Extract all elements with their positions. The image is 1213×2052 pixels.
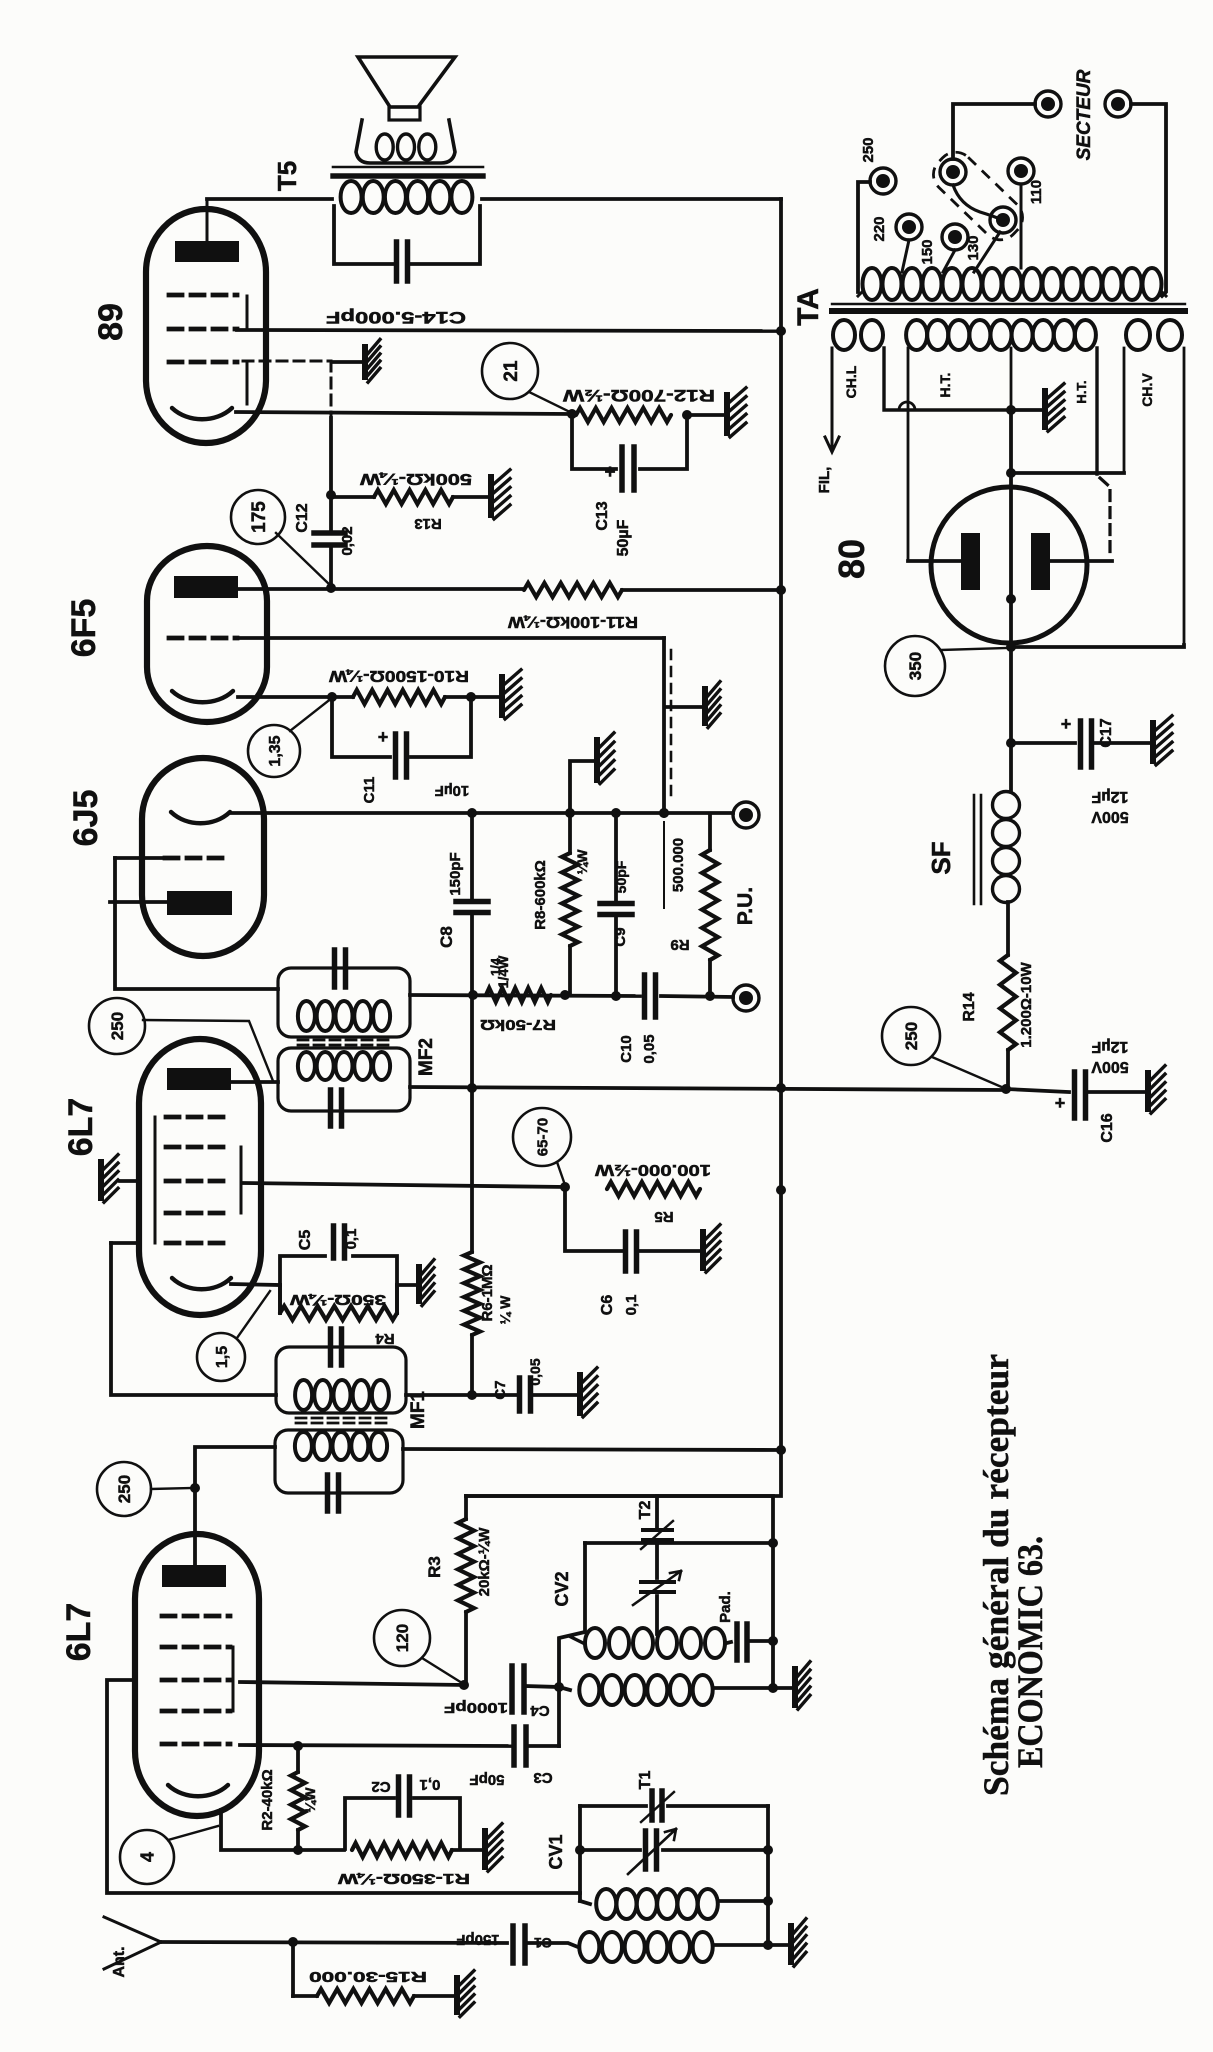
ground <box>362 339 380 382</box>
svg-text:T5: T5 <box>272 161 302 191</box>
switch dashed outline <box>926 145 1030 247</box>
resistor R8 label <box>495 849 590 989</box>
MF2 upper box <box>278 968 410 1037</box>
wire C6 branch <box>565 1187 700 1251</box>
svg-text:T2: T2 <box>637 1501 654 1520</box>
TA primary coil <box>858 268 1166 300</box>
svg-text:250: 250 <box>902 1022 921 1050</box>
tube 6J5 anode arc <box>171 812 230 823</box>
svg-text:C13: C13 <box>594 501 611 530</box>
svg-text:0,1: 0,1 <box>623 1295 640 1316</box>
wire 6J5 anode long <box>230 811 733 815</box>
MF1 upper coil <box>295 1380 389 1410</box>
svg-text:20kΩ-¼W: 20kΩ-¼W <box>476 1527 493 1597</box>
antenna coil <box>579 1932 788 1962</box>
resistor R9 labels <box>664 822 690 953</box>
svg-text:FIL,: FIL, <box>816 467 833 494</box>
wire MF2 to R14 junction <box>410 1087 1004 1090</box>
wire R10 to ground <box>445 692 499 702</box>
svg-text:150: 150 <box>919 239 936 264</box>
svg-text:C5: C5 <box>297 1230 314 1251</box>
tube 6L7-1 anode <box>162 1565 226 1587</box>
terminal 250 <box>860 137 896 194</box>
svg-text:350: 350 <box>906 652 925 680</box>
svg-text:350Ω-¼W: 350Ω-¼W <box>289 1291 386 1308</box>
svg-text:50pF: 50pF <box>613 860 629 893</box>
ground branch <box>570 761 594 813</box>
svg-text:C11: C11 <box>361 777 378 804</box>
svg-text:0,02: 0,02 <box>339 526 356 555</box>
svg-text:CV2: CV2 <box>552 1571 572 1606</box>
trimmer T1 <box>637 1771 674 1822</box>
wire chv right to filament <box>1011 645 1184 647</box>
wire antenna <box>161 1937 507 1947</box>
MF2 core <box>298 1040 390 1045</box>
svg-text:+: + <box>378 727 389 747</box>
wire C17 ground <box>1092 741 1150 745</box>
wire HT right to plate <box>1050 559 1112 563</box>
tube 6J5 grid row <box>165 856 228 861</box>
wire 6F5 cathode <box>238 692 353 702</box>
TA core <box>832 304 1185 311</box>
svg-text:0,1: 0,1 <box>343 1229 360 1250</box>
wire 6F5 grid <box>240 636 664 640</box>
svg-text:R13: R13 <box>414 515 442 532</box>
tube 6L7-2 anode <box>167 1068 231 1090</box>
SF label <box>926 841 956 874</box>
svg-text:0,05: 0,05 <box>527 1358 543 1385</box>
resistor R2 <box>291 1746 305 1850</box>
tube 6L7-1 cathode <box>168 1785 228 1796</box>
svg-text:R12-700Ω-½W: R12-700Ω-½W <box>562 386 715 405</box>
wire to ground cv2 <box>773 1686 792 1690</box>
tube 6L7 second label <box>62 1098 100 1157</box>
svg-text:65-70: 65-70 <box>534 1118 551 1156</box>
svg-text:H.T.: H.T. <box>1074 380 1089 403</box>
tube 6F5 label <box>65 599 103 658</box>
svg-text:1,35: 1,35 <box>267 735 284 766</box>
svg-text:1/4: 1/4 <box>488 957 503 976</box>
wire 6L7-1 cathode out <box>221 1810 344 1855</box>
capacitor C16 <box>1055 1072 1116 1143</box>
R15 label <box>309 1968 427 1985</box>
tube 80 plate left <box>961 533 980 590</box>
capacitor C10 <box>618 975 658 1064</box>
svg-text:130: 130 <box>965 235 982 260</box>
svg-text:¼ W: ¼ W <box>497 1295 513 1325</box>
C2 R1 box <box>345 1798 460 1849</box>
resistor R13 <box>331 470 472 532</box>
wire R12 to ground <box>687 413 724 417</box>
resistor R3 <box>458 1496 474 1685</box>
MF1 lower cap <box>328 1475 339 1511</box>
resistor R7 <box>480 957 556 1033</box>
svg-text:T1: T1 <box>637 1771 654 1790</box>
tube 80 <box>931 487 1087 643</box>
svg-text:¼W: ¼W <box>574 849 590 875</box>
wire terminal 150 <box>943 250 955 272</box>
choke SF core <box>974 795 981 904</box>
ground <box>1042 384 1064 432</box>
capacitor C6 <box>599 1232 640 1315</box>
wire C7 ground <box>533 1393 577 1397</box>
svg-text:175: 175 <box>249 501 270 533</box>
junction <box>1006 642 1016 652</box>
tube 80 label <box>831 539 872 579</box>
resistor R4 <box>280 1285 397 1347</box>
wire MF1 upper right <box>406 1393 517 1397</box>
wire 89 cathode <box>236 412 572 414</box>
svg-text:1.200Ω-10W: 1.200Ω-10W <box>1018 961 1035 1047</box>
junction <box>682 410 692 420</box>
svg-text:1,5: 1,5 <box>214 1346 231 1368</box>
svg-text:C2: C2 <box>371 1778 390 1795</box>
resistor R10 <box>328 667 469 704</box>
svg-text:H.T.: H.T. <box>937 373 953 398</box>
terminal SECTEUR 1 <box>1035 91 1061 117</box>
svg-text:10µF: 10µF <box>435 782 470 799</box>
wire terminal 220 <box>902 240 909 272</box>
capacitor C5 <box>297 1226 360 1258</box>
svg-text:R10-1500Ω-¼W: R10-1500Ω-¼W <box>328 667 469 684</box>
transformer TA label <box>792 288 825 326</box>
wire R4 to ground <box>397 1283 416 1287</box>
svg-text:C7: C7 <box>492 1380 509 1399</box>
TA secondary CH.V <box>1124 320 1184 645</box>
svg-text:CV1: CV1 <box>546 1834 566 1869</box>
svg-text:C14-5.000pF: C14-5.000pF <box>326 308 466 327</box>
ground <box>1145 1066 1165 1114</box>
MF1 label <box>408 1391 429 1429</box>
svg-text:R4: R4 <box>375 1330 395 1347</box>
tube 6F5 anode <box>174 576 238 598</box>
svg-text:ECONOMIC 63.: ECONOMIC 63. <box>1010 1536 1050 1768</box>
terminal 130 switch <box>965 207 1016 261</box>
svg-text:C16: C16 <box>1099 1113 1116 1142</box>
ground <box>792 1662 810 1710</box>
capacitor C13 loop <box>572 415 687 469</box>
junction <box>567 409 577 419</box>
transformer T5 box <box>334 206 480 264</box>
wire 6J5 left down <box>115 858 278 989</box>
wire MF2 to PU bottom <box>410 995 733 997</box>
svg-text:250: 250 <box>108 1012 127 1040</box>
terminal SECTEUR 2 <box>1105 91 1131 117</box>
svg-text:R15-30.000: R15-30.000 <box>309 1968 427 1985</box>
tube 89 grid bracket <box>246 296 249 404</box>
wire cv2 left <box>559 1543 585 1687</box>
MF1 lower box <box>275 1430 403 1493</box>
tube 6L7-2 left bracket <box>154 1117 157 1243</box>
wire 6J5 grid stub <box>115 856 165 860</box>
MF1 core <box>296 1418 388 1423</box>
tube 6J5 cathode plate <box>167 891 232 915</box>
terminal 150 <box>919 224 968 265</box>
tube 6F5 cathode <box>172 691 233 702</box>
wire HT left to plate <box>908 559 961 563</box>
svg-text:R14: R14 <box>961 992 978 1021</box>
svg-text:+: + <box>1055 1093 1066 1113</box>
circle 21 <box>482 343 570 412</box>
MF2 upper coil <box>298 1001 390 1031</box>
title line 1 <box>976 1354 1016 1796</box>
ground <box>499 670 521 719</box>
tube 89 anode <box>175 199 239 262</box>
junction <box>467 1083 477 1093</box>
circle 120 <box>374 1610 462 1683</box>
circle 175 <box>231 490 330 585</box>
resistor R12 <box>562 386 715 422</box>
wire R15 ground <box>414 1994 454 1998</box>
svg-text:¼W: ¼W <box>302 1787 318 1813</box>
wire 6L7-1 g5 out <box>240 1741 511 1751</box>
speaker core <box>333 167 483 176</box>
wire switch to secteur <box>953 104 1035 159</box>
svg-text:R6-1MΩ: R6-1MΩ <box>479 1264 496 1321</box>
MF2 lower cap <box>331 1090 342 1126</box>
wire C12 to anode wire <box>326 547 336 593</box>
svg-text:6J5: 6J5 <box>67 790 105 847</box>
svg-text:Ant.: Ant. <box>111 1946 128 1977</box>
HT ground label <box>1074 380 1089 403</box>
ground stub <box>666 705 702 709</box>
pot link dashed <box>670 650 673 800</box>
svg-text:C12: C12 <box>294 503 311 532</box>
wire C16 ground <box>1086 1090 1145 1094</box>
wire 89 grid3 dashed <box>243 361 331 416</box>
wire terminal 130 <box>974 232 1000 272</box>
TA secondary CH.L <box>833 320 1008 410</box>
svg-text:R5: R5 <box>654 1208 673 1225</box>
capacitor C3 <box>469 1727 552 1788</box>
wire C1 to coil <box>527 1943 578 1947</box>
svg-text:+: + <box>604 462 615 483</box>
ground <box>454 1971 474 2017</box>
svg-text:SF: SF <box>926 841 956 874</box>
R4 C5 box <box>280 1256 397 1313</box>
resistor R5 <box>594 1161 711 1225</box>
transformer T5 label <box>272 161 302 191</box>
svg-text:Pad.: Pad. <box>717 1591 734 1623</box>
circle 250 (b+) <box>882 1007 1004 1088</box>
wire T1 top <box>580 1804 768 1808</box>
speaker cone <box>358 57 455 107</box>
capacitor C11 loop <box>332 697 471 757</box>
svg-text:SECTEUR: SECTEUR <box>1074 69 1095 160</box>
capacitor C14 <box>326 242 466 327</box>
MF1 upper cap <box>331 1329 342 1365</box>
wire MF1 lower right <box>403 1449 781 1450</box>
circle 350 <box>885 636 1007 696</box>
resistor R15 branch <box>293 1942 414 2003</box>
capacitor C9 branch <box>600 813 632 997</box>
circle 250 (osc) <box>97 1462 193 1516</box>
resistor R6 <box>464 1252 513 1335</box>
ground <box>594 733 614 784</box>
switch link <box>953 185 1000 219</box>
MF1 upper box <box>276 1347 406 1413</box>
HT label <box>937 373 953 398</box>
svg-text:R9: R9 <box>670 936 689 953</box>
tube 6L7-2 grid rows <box>166 1117 230 1243</box>
svg-text:250: 250 <box>115 1475 134 1503</box>
C17 labels <box>1091 788 1129 825</box>
wire 6L7-1 grid out <box>240 1680 469 1690</box>
FIL arrow <box>816 348 839 493</box>
wire R6 to C7wire <box>467 1335 477 1400</box>
tube 6L7-1 grid rows <box>162 1616 230 1744</box>
svg-text:80: 80 <box>831 539 872 579</box>
capacitor C17 <box>1061 714 1115 767</box>
svg-text:R1-350Ω-¼W: R1-350Ω-¼W <box>337 1870 470 1887</box>
svg-text:R8-600kΩ: R8-600kΩ <box>532 860 549 930</box>
R2 labels <box>259 1769 318 1830</box>
switch terminal <box>940 159 966 185</box>
bus C8-R6 <box>470 995 474 1252</box>
junction <box>763 1940 773 1950</box>
svg-text:R3: R3 <box>425 1556 444 1578</box>
ground <box>788 1919 806 1967</box>
terminal P.U. top <box>733 802 759 828</box>
svg-text:MF2: MF2 <box>416 1038 437 1076</box>
oscillator coil <box>571 1628 725 1658</box>
capacitor C13 <box>594 447 634 556</box>
tube 6J5 label <box>67 790 105 847</box>
bus vertical <box>466 199 781 1496</box>
svg-text:500.000: 500.000 <box>670 838 687 892</box>
wire secteur right <box>1131 104 1166 296</box>
wire to C12 <box>326 418 336 531</box>
svg-text:250: 250 <box>860 137 877 162</box>
wire g3 left <box>107 1680 580 1893</box>
wire R1 ground <box>452 1848 482 1852</box>
capacitor C12 <box>294 503 356 555</box>
antenna <box>104 1917 161 1978</box>
wire MF1 lower left <box>190 1447 275 1564</box>
tube 89 label <box>92 303 130 341</box>
svg-text:1000pF: 1000pF <box>444 1699 508 1716</box>
ground <box>702 682 720 728</box>
terminal 110 <box>1008 158 1045 204</box>
wire cv2 top <box>585 1538 778 1548</box>
wire T5 to bus <box>482 197 781 201</box>
svg-text:+: + <box>1061 714 1072 734</box>
variable capacitor CV1 <box>546 1829 768 1874</box>
svg-text:C6: C6 <box>599 1295 616 1316</box>
tube 6L7-1 screen bracket <box>232 1647 235 1711</box>
terminal 220 <box>871 214 922 242</box>
trimmer T2 <box>637 1496 673 1549</box>
wire 6J5 cathode stub <box>110 900 167 904</box>
resistor R1 <box>337 1843 470 1887</box>
capacitor C2 <box>371 1776 440 1815</box>
ground <box>488 470 510 519</box>
capacitor C1 <box>456 1926 552 1963</box>
CV1 grid coil <box>580 1889 768 1919</box>
svg-text:500kΩ-¼W: 500kΩ-¼W <box>359 470 472 487</box>
svg-text:6F5: 6F5 <box>65 599 103 658</box>
circle 1,5 <box>197 1291 270 1381</box>
svg-text:220: 220 <box>871 216 888 241</box>
tube 89 <box>146 209 266 443</box>
tube 89 cathode <box>172 408 232 419</box>
svg-text:120: 120 <box>393 1624 412 1652</box>
MF2 label <box>416 1038 437 1076</box>
circle 4 <box>120 1826 218 1884</box>
svg-text:R2-40kΩ: R2-40kΩ <box>259 1769 276 1830</box>
tube 6L7 first label <box>60 1603 98 1662</box>
terminal P.U. bottom <box>733 985 759 1011</box>
HT center tap <box>1006 348 1016 415</box>
svg-text:6L7: 6L7 <box>62 1098 100 1157</box>
wire 6L7-2 cathode <box>231 1284 280 1285</box>
tube 6L7-2 screen bracket <box>240 1147 243 1213</box>
capacitor C9 label <box>612 860 629 946</box>
ground <box>416 1260 434 1306</box>
svg-text:500V: 500V <box>1091 1058 1129 1075</box>
resistor R8 branch <box>562 813 578 995</box>
junction <box>467 808 669 818</box>
svg-text:CH.L: CH.L <box>843 365 859 398</box>
wire R11 to bus <box>622 585 786 595</box>
CH.V label <box>1139 373 1155 407</box>
wire chv left to filament <box>1006 468 1124 478</box>
resistor R9 branch <box>702 815 718 996</box>
circle 1,35 <box>248 701 328 777</box>
wire R13 to ground <box>453 495 488 499</box>
svg-text:100.000-½W: 100.000-½W <box>594 1161 711 1178</box>
tube 6L7 second <box>139 1039 261 1315</box>
wire to C16 <box>1006 1089 1069 1092</box>
variable capacitor CV2 <box>552 1543 681 1634</box>
MF1 lower coil <box>295 1432 387 1460</box>
wire ct to ground <box>1011 408 1042 412</box>
svg-text:C3: C3 <box>533 1769 552 1786</box>
ground <box>700 1225 720 1273</box>
ground <box>577 1368 597 1417</box>
wire terminal 110 <box>1020 184 1023 268</box>
capacitor C8 branch <box>456 813 488 995</box>
svg-text:P.U.: P.U. <box>734 887 757 925</box>
svg-text:C10: C10 <box>618 1035 635 1063</box>
CV1 left vertical <box>575 1806 585 1901</box>
speaker voice coil <box>376 134 436 160</box>
TA secondary HT <box>906 320 1096 561</box>
wire 6F5 anode <box>239 587 524 591</box>
junction <box>1001 1084 1011 1094</box>
HT right leg <box>1097 348 1110 558</box>
choke SF <box>993 743 1020 955</box>
tube 80 plate right <box>1031 533 1050 590</box>
transformer T5 coil <box>341 181 473 213</box>
P.U. label <box>734 887 757 925</box>
svg-text:R7-50kΩ: R7-50kΩ <box>480 1016 556 1033</box>
wire C4 to coils <box>526 1682 564 1692</box>
capacitor C7 <box>492 1358 543 1411</box>
svg-text:0,05: 0,05 <box>641 1034 658 1063</box>
junction <box>468 990 715 1001</box>
padder capacitor <box>717 1591 747 1660</box>
speaker voice-coil box <box>356 120 455 163</box>
tube 89 grid rows <box>169 295 237 362</box>
capacitor C8 label <box>437 852 464 948</box>
ground stub g3 <box>120 1179 139 1183</box>
wire pad <box>727 1642 731 1643</box>
wire to C17 <box>1011 741 1075 745</box>
circle 65-70 <box>513 1108 571 1185</box>
circle 250 (mf2) <box>89 998 273 1081</box>
capacitor C4 <box>444 1666 550 1719</box>
